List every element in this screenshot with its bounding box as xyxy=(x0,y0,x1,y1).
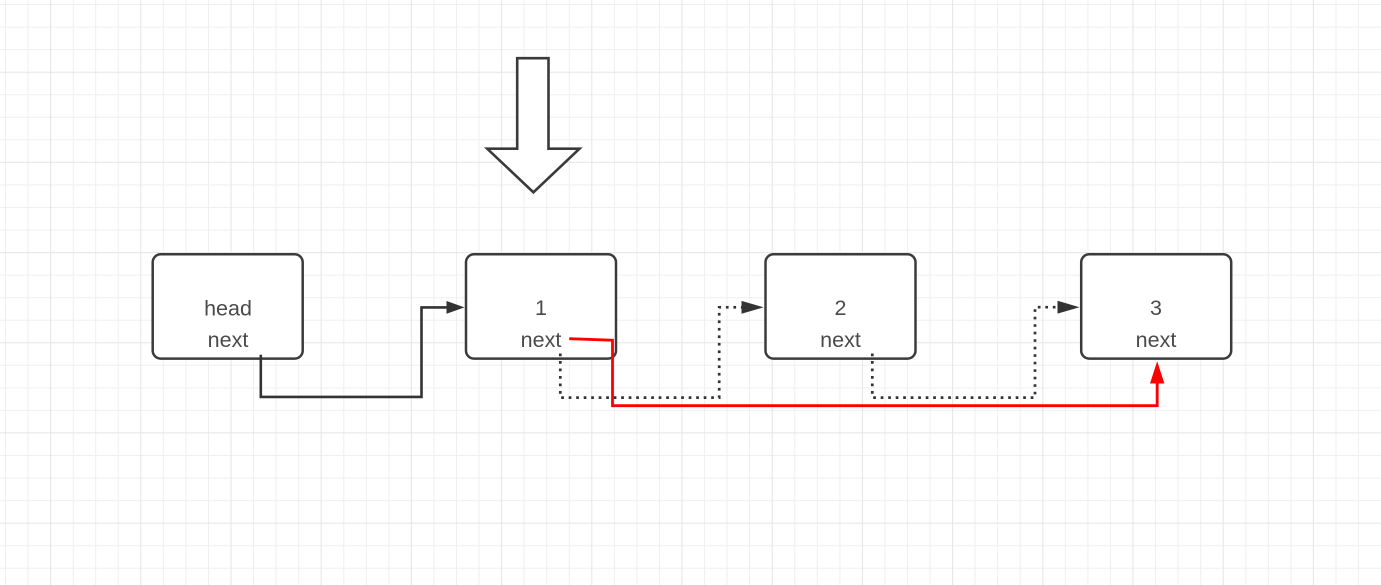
svg-text:3: 3 xyxy=(1150,296,1162,320)
insertion pointer: hollow down arrow xyxy=(487,58,579,192)
svg-text:next: next xyxy=(521,328,562,352)
label 2 xyxy=(835,296,847,320)
svg-text:next: next xyxy=(820,328,861,352)
wire node1.next to node 2 (dotted) xyxy=(560,307,741,397)
red arrowhead into node 3 bottom xyxy=(1150,361,1164,383)
wire node2.next to node 3 (dotted) xyxy=(872,307,1057,397)
label next (node 2) xyxy=(820,328,861,352)
label next (node 1) xyxy=(521,328,562,352)
label next (head) xyxy=(208,328,249,352)
svg-text:1: 1 xyxy=(535,296,547,320)
node 3 box xyxy=(1081,254,1231,358)
arrowhead into node 2 xyxy=(742,301,764,314)
svg-text:next: next xyxy=(1136,328,1177,352)
wire head.next to node 1 (solid) xyxy=(261,307,447,397)
label head xyxy=(204,297,252,321)
label next (node 3) xyxy=(1136,328,1177,352)
arrowhead into node 1 xyxy=(447,301,465,314)
node head box xyxy=(153,254,303,358)
svg-text:next: next xyxy=(208,328,249,352)
svg-text:head: head xyxy=(204,297,252,321)
red wire node1.next to node 3 xyxy=(569,339,1157,406)
node 1 box xyxy=(466,254,616,358)
label 1 xyxy=(535,296,547,320)
node 2 box xyxy=(766,254,916,358)
svg-text:2: 2 xyxy=(835,296,847,320)
label 3 xyxy=(1150,296,1162,320)
arrowhead into node 3 xyxy=(1058,301,1080,314)
